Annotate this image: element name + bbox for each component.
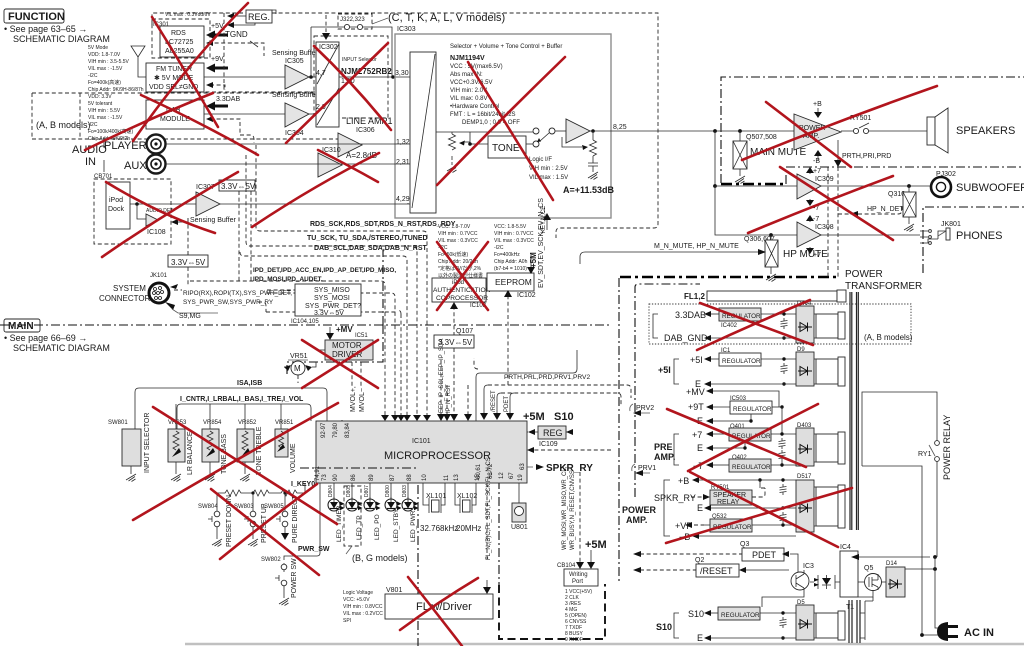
dashed arrow into micro right (530, 449, 611, 451)
svg-text:V801: V801 (386, 587, 402, 594)
svg-text:SYS_MISO: SYS_MISO (314, 287, 350, 294)
svg-text:M_N_MUTE, HP_N_MUTE: M_N_MUTE, HP_N_MUTE (654, 243, 739, 250)
svg-text:+7: +7 (692, 430, 702, 440)
rounded dashed from IC303 region down (474, 358, 478, 369)
X over pots (153, 407, 337, 524)
svg-text:TU_SCK, TU_SDA,/STEREO,/TUNED: TU_SCK, TU_SDA,/STEREO,/TUNED (307, 235, 428, 242)
svg-text:RDS: RDS (171, 30, 186, 37)
connector circle (149, 283, 169, 303)
(A,B models) dashed box (32, 93, 340, 139)
(A,B models) dotted box (649, 304, 911, 344)
svg-text:+7: +7 (813, 168, 821, 175)
svg-text:PLAYER: PLAYER (104, 140, 147, 152)
svg-text:IN: IN (85, 156, 96, 168)
X over TONE (437, 57, 565, 185)
svg-text:+5M: +5M (523, 411, 545, 423)
svg-text:VIL max : -1.5V: VIL max : -1.5V (88, 115, 123, 121)
svg-text:VIH min: 2.0V: VIH min: 2.0V (450, 88, 487, 94)
svg-text:-B: -B (813, 158, 820, 165)
selector trapezoid element (410, 52, 436, 213)
svg-text:Q2: Q2 (695, 557, 704, 564)
svg-text:SUBWOOFER: SUBWOOFER (956, 182, 1024, 194)
wire player to IC303 (166, 143, 410, 145)
svg-text:• See page 66–69 →: • See page 66–69 → (4, 333, 87, 343)
dashed arrow into EEPROM from below (507, 296, 509, 385)
svg-text:J322,323: J322,323 (340, 17, 365, 23)
iPod Dock box (106, 182, 130, 229)
svg-text:Q507,508: Q507,508 (746, 134, 777, 141)
LED D804 LED_TIMER (333, 483, 335, 499)
svg-text:Writing: Writing (569, 572, 588, 578)
bracket (653, 314, 658, 338)
X over DAB module (85, 93, 213, 150)
svg-text:IC308: IC308 (815, 224, 834, 231)
svg-text:LED_TP: LED_TP (356, 515, 363, 540)
svg-text:VIH min : 5.5V: VIH min : 5.5V (88, 108, 121, 114)
dash-dot enclosure around motor (287, 325, 383, 377)
main section dash-dot border left (0, 250, 612, 325)
dashed columns into micro (441, 360, 447, 415)
IC302 selector element (316, 42, 339, 127)
svg-text:PRTH,PRL,PRD,PRV1,PRV2: PRTH,PRL,PRD,PRV1,PRV2 (504, 374, 590, 381)
J322,323 connector (338, 14, 372, 29)
svg-text:TRANSFORMER: TRANSFORMER (845, 281, 922, 292)
X over RDS/FM tuner (133, 3, 248, 141)
arrow from S9,MG up to connector (165, 302, 175, 310)
svg-text:67: 67 (509, 472, 515, 479)
svg-text:SW802: SW802 (261, 557, 281, 563)
MAIN title box (4, 319, 110, 353)
svg-text:Sensing Buffer: Sensing Buffer (272, 50, 318, 57)
svg-text:+9V: +9V (211, 56, 224, 63)
caps D517 area (780, 484, 787, 495)
svg-text:LED_PWR: LED_PWR (410, 510, 417, 542)
X over motor driver (302, 340, 378, 388)
U801 (518, 483, 520, 503)
svg-text:A8255A0: A8255A0 (165, 48, 194, 55)
svg-text:5V tolerant: 5V tolerant (88, 101, 113, 107)
antenna (131, 46, 146, 77)
svg-text:VIL max : -1.5V: VIL max : -1.5V (88, 66, 123, 72)
svg-text:Logic I/F: Logic I/F (529, 157, 552, 163)
svg-text:Q107: Q107 (456, 328, 473, 335)
svg-text:AUX: AUX (124, 160, 147, 172)
svg-text:DAB_SCL,DAB_SDA,DAB_N_RST: DAB_SCL,DAB_SDA,DAB_N_RST (314, 245, 428, 252)
svg-text:TONE TREBLE: TONE TREBLE (256, 426, 263, 475)
svg-text:VIL max : 0.3Vdd/6V: VIL max : 0.3Vdd/6V (165, 12, 211, 18)
wire REG to left with arrow (234, 15, 246, 17)
IC303 box (395, 34, 611, 218)
svg-text:REGULATOR: REGULATOR (733, 406, 772, 413)
svg-text:SYS_PWR_DET?: SYS_PWR_DET? (305, 303, 361, 310)
IC301 RDS block (160, 26, 204, 57)
svg-text:VCC : 5V(max6.5V): VCC : 5V(max6.5V) (450, 64, 503, 70)
dash-dot border over microprocessor (300, 467, 418, 469)
bypass wire over TONE (470, 131, 533, 133)
svg-text:•Hardware Control: •Hardware Control (450, 104, 499, 110)
svg-text:Fo=400k(高速): Fo=400k(高速) (88, 79, 121, 86)
svg-text:VCC: 1.8-7.0V: VCC: 1.8-7.0V (438, 224, 471, 230)
svg-text:RELAY: RELAY (717, 499, 740, 506)
svg-text:Dock: Dock (108, 206, 124, 213)
svg-text:Fo=50k(低速): Fo=50k(低速) (438, 251, 468, 258)
opto coupler LED (818, 575, 835, 589)
AC IN plug (937, 622, 948, 641)
svg-text:HP_N_DET: HP_N_DET (867, 206, 904, 213)
svg-text:LED_PO: LED_PO (374, 514, 381, 540)
svg-text:Selector + Volume + Tone Contr: Selector + Volume + Tone Control + Buffe… (450, 44, 562, 50)
SPKR_RY output (527, 466, 533, 468)
svg-text:20MHz: 20MHz (456, 524, 481, 533)
svg-text:+9T: +9T (688, 402, 704, 412)
wire DAB to IC304 (204, 113, 285, 115)
svg-text:4,7: 4,7 (316, 70, 326, 77)
svg-text:IPD_DET,IPD_ACC_EN,IPD_AP_DET,: IPD_DET,IPD_ACC_EN,IPD_AP_DET,IPD_MISO, (253, 267, 396, 274)
svg-text:PDET: PDET (504, 396, 510, 412)
svg-text:E: E (697, 443, 703, 453)
wire down to subwoofer row (714, 131, 716, 186)
LED D807 LED_PO (369, 483, 371, 499)
svg-text:73: 73 (322, 474, 328, 481)
IC301 dashed box (152, 19, 210, 58)
svg-text:PWR_SW: PWR_SW (298, 546, 330, 553)
svg-text:iPod: iPod (109, 197, 123, 204)
micro section dash-dot vertical (417, 468, 419, 646)
svg-text:SYS_PWR_SW,SYS_PWR_RY: SYS_PWR_SW,SYS_PWR_RY (183, 299, 274, 306)
svg-text:POWER SW: POWER SW (291, 558, 298, 598)
LED D805 LED_TP dashed box (351, 483, 353, 499)
svg-text:E: E (697, 503, 703, 513)
bus arrows into micro (381, 415, 431, 421)
svg-text:IC102: IC102 (517, 292, 536, 299)
wire IC302 to IC303 (339, 76, 410, 78)
function bottom-right thick dash-dot border (620, 276, 838, 279)
svg-text:2,31: 2,31 (396, 159, 410, 166)
motor driver box (325, 340, 373, 360)
svg-text:I_CNTR,I_LRBAL,I_BAS,I_TRE,I_V: I_CNTR,I_LRBAL,I_BAS,I_TRE,I_VOL (180, 396, 304, 403)
svg-text:3.3DAB: 3.3DAB (675, 310, 706, 320)
svg-text:3.3V⇔5V: 3.3V⇔5V (221, 182, 256, 191)
KEY_N_CE arrow into IC303 bottom (546, 219, 548, 230)
IC309 amp (715, 185, 797, 187)
svg-text:D803: D803 (402, 485, 408, 497)
dashed vertical TGND line (223, 13, 225, 92)
svg-text:3.3V⇔5V: 3.3V⇔5V (314, 310, 344, 317)
svg-text:SW801: SW801 (108, 420, 128, 426)
svg-text:LED_STBY: LED_STBY (393, 508, 400, 542)
svg-text:S10: S10 (656, 622, 672, 632)
IC302 dashed box (314, 36, 388, 118)
output opamp (555, 130, 566, 132)
svg-text:RIPO(RX),ROPI(TX),SYS_PWR_DET,: RIPO(RX),ROPI(TX),SYS_PWR_DET, (183, 290, 292, 297)
svg-text:REG.: REG. (248, 12, 270, 22)
arrow into dashed box (171, 219, 178, 225)
phones dash-dot box (923, 207, 1024, 273)
svg-text:19: 19 (518, 474, 524, 481)
feedback resistor (590, 131, 597, 160)
svg-text:JK101: JK101 (150, 273, 168, 279)
svg-text:VDD: 1.8-7.0V: VDD: 1.8-7.0V (88, 52, 121, 58)
svg-text:E: E (697, 633, 703, 643)
wires around IC4 (858, 556, 930, 558)
dashed bus to power section (488, 385, 631, 398)
svg-text:4,29: 4,29 (396, 196, 410, 203)
svg-text:5V Mode: 5V Mode (88, 45, 108, 51)
svg-text:U801: U801 (511, 524, 528, 531)
wire tuner to IC305 (204, 76, 285, 78)
LED D803 LED_PWR (407, 483, 409, 499)
svg-text:VIL max : 1.5V: VIL max : 1.5V (529, 175, 568, 181)
5V Mode spec text (88, 45, 144, 93)
wire IC307 to IC303 (220, 203, 410, 204)
svg-text:PDET: PDET (752, 550, 777, 560)
svg-text:TONE: TONE (492, 143, 520, 154)
DAB MODULE block (146, 100, 204, 129)
svg-text:D14: D14 (886, 561, 898, 567)
dashed link motor to volume pot (298, 375, 342, 440)
svg-text:-I2C: -I2C (88, 122, 98, 128)
3.3V-5V box lower (168, 255, 208, 267)
dashed link IC307 to 3.3V box (187, 218, 189, 256)
wire IC305 to IC302 (309, 76, 316, 78)
svg-text:SW805: SW805 (264, 504, 284, 510)
svg-text:REG: REG (543, 428, 563, 438)
svg-text:PRTH,PRI,PRD: PRTH,PRI,PRD (842, 153, 891, 160)
svg-text:S10: S10 (688, 609, 704, 619)
svg-text:+5I: +5I (658, 365, 671, 375)
svg-text:92-97: 92-97 (321, 422, 327, 438)
svg-text:VOLUME: VOLUME (290, 443, 297, 473)
svg-text:IC51: IC51 (355, 333, 368, 339)
svg-text:88: 88 (407, 474, 413, 481)
EEPROM box (487, 273, 534, 291)
svg-text:IC101: IC101 (412, 438, 431, 445)
AC wires to plug (922, 557, 948, 635)
svg-text:(C, T, K, A, L, V models): (C, T, K, A, L, V models) (388, 12, 505, 24)
svg-text:VR852: VR852 (238, 420, 257, 426)
top dashed enclosure (C,T,K,A,L,V models) (152, 13, 658, 238)
authentication coprocessor box (432, 278, 486, 302)
logic voltage text (343, 590, 383, 624)
switch circles (533, 128, 539, 134)
power section inner dash-dot border (635, 284, 700, 497)
svg-text:EEP_IP_SCL,EEP_IP_SDA: EEP_IP_SCL,EEP_IP_SDA (439, 339, 445, 413)
svg-text:Q3: Q3 (740, 541, 749, 548)
svg-text:VR851: VR851 (275, 420, 294, 426)
svg-text:IC4: IC4 (840, 544, 851, 551)
svg-text:M: M (294, 364, 301, 373)
DAB spec text (88, 94, 133, 142)
svg-text:EEPROM: EEPROM (495, 277, 532, 287)
svg-text:SYSTEM: SYSTEM (113, 284, 146, 293)
svg-text:VCC: 1.8-5.5V: VCC: 1.8-5.5V (494, 224, 527, 230)
tone out wire (526, 143, 533, 145)
svg-text:MVOL+,: MVOL+, (350, 386, 357, 412)
svg-text:IC104,105: IC104,105 (291, 319, 319, 325)
svg-text:POWER: POWER (622, 505, 657, 515)
wire to phones (821, 234, 920, 236)
X over input selector IC302 (286, 43, 388, 143)
svg-text:Chip Addr: 9K/9H-86/87h: Chip Addr: 9K/9H-86/87h (88, 87, 144, 93)
svg-text:S9,MG: S9,MG (179, 313, 201, 320)
svg-text:VIH min : 3.5-5.5V: VIH min : 3.5-5.5V (88, 59, 130, 65)
svg-text:VIH min : 0.8VCC: VIH min : 0.8VCC (343, 604, 383, 610)
thick arrow +5V into RDS (206, 31, 228, 40)
svg-text:+MV: +MV (686, 387, 705, 397)
svg-text:+MV: +MV (336, 325, 353, 334)
svg-text:AC IN: AC IN (964, 627, 994, 639)
IC4 box (810, 581, 840, 583)
svg-text:A=+11.53dB: A=+11.53dB (563, 185, 615, 195)
power amp triangle (794, 114, 841, 150)
svg-text:Q5: Q5 (864, 565, 873, 572)
svg-text:3,30: 3,30 (395, 70, 409, 77)
LED D800 LED_STBY (390, 483, 392, 499)
X over IC310 / line amp (252, 153, 379, 227)
svg-text:DEMP1,0 ; 0,0 = OFF: DEMP1,0 ; 0,0 = OFF (462, 120, 520, 126)
wire dock to IC307 (130, 203, 196, 205)
primary winding loop (862, 392, 937, 558)
svg-text:NJM2752RB2: NJM2752RB2 (341, 67, 392, 76)
svg-text:T1: T1 (846, 604, 854, 611)
svg-text:SYS_MOSI: SYS_MOSI (314, 295, 350, 302)
wire aux to IC303 (166, 163, 410, 165)
TONE box (488, 136, 526, 158)
svg-text:3.3V⇔5V: 3.3V⇔5V (171, 258, 206, 267)
REG. box (246, 10, 272, 23)
svg-text:AMP.: AMP. (654, 452, 675, 462)
speaker symbol (927, 117, 935, 145)
svg-text:MVOL−: MVOL− (359, 388, 366, 412)
3.3V-5V box top (219, 180, 255, 191)
svg-text:MICROPROCESSOR: MICROPROCESSOR (384, 450, 491, 462)
svg-text:Sensing Buffer: Sensing Buffer (272, 92, 318, 99)
svg-text:VIL max : 0.2VCC: VIL max : 0.2VCC (343, 611, 383, 617)
svg-text:63: 63 (520, 463, 526, 470)
svg-text:79,80: 79,80 (333, 422, 339, 438)
svg-text:REGULATOR: REGULATOR (721, 612, 760, 619)
svg-text:15: 15 (475, 474, 481, 481)
svg-text:87: 87 (390, 474, 396, 481)
svg-text:SPI: SPI (343, 618, 351, 624)
svg-text:+B: +B (813, 101, 822, 108)
wire to subwoofer (821, 185, 931, 187)
dashed down to writing port (579, 472, 581, 563)
bottom border gray line (185, 643, 1024, 646)
IC302 outer solid box (311, 27, 392, 77)
svg-text:IC109: IC109 (539, 441, 558, 448)
svg-text:IC108: IC108 (147, 229, 166, 236)
svg-text:RDS_SCK,RDS_SDT,RDS_N_RST,RDS_: RDS_SCK,RDS_SDT,RDS_N_RST,RDS_RDY (310, 221, 456, 228)
svg-text:SPKR_RY: SPKR_RY (654, 493, 696, 503)
svg-text:90: 90 (333, 474, 339, 481)
svg-text:FL1,2: FL1,2 (684, 292, 705, 301)
svg-text:IC305: IC305 (285, 58, 304, 65)
svg-text:32.768kHz: 32.768kHz (420, 524, 458, 533)
arrow into connector right (170, 284, 178, 289)
svg-text:-7: -7 (813, 216, 819, 223)
svg-text:83,84: 83,84 (345, 422, 351, 438)
svg-text:VCC: +5.0V: VCC: +5.0V (343, 597, 370, 603)
svg-text:/RESET: /RESET (700, 566, 733, 576)
X over power amp supply (666, 488, 852, 543)
svg-text:HP MUTE: HP MUTE (783, 249, 828, 260)
svg-text:(B, G models): (B, G models) (352, 553, 408, 563)
svg-text:VCC+0.3V/6.5V: VCC+0.3V/6.5V (450, 80, 493, 86)
X over headphone amps (780, 167, 893, 240)
FL area dash-dot vertical (498, 480, 500, 585)
svg-text:LR BALANCE: LR BALANCE (187, 431, 194, 475)
X over FL driver (408, 577, 462, 646)
X over preset switches (211, 489, 319, 575)
svg-text:ISA,ISB: ISA,ISB (237, 380, 262, 387)
svg-text:TGND: TGND (225, 30, 248, 39)
svg-text:REGULATOR: REGULATOR (732, 464, 771, 471)
svg-text:11: 11 (444, 474, 450, 481)
svg-text:3.3DAB: 3.3DAB (216, 96, 240, 103)
JK101 dashed columns (267, 293, 395, 416)
svg-text:Chip Addr: A0h: Chip Addr: A0h (494, 259, 528, 265)
svg-text:9 RXDF: 9 RXDF (565, 637, 583, 643)
svg-text:POWER RELAY: POWER RELAY (942, 415, 952, 480)
svg-text:• See page 63–65 →: • See page 63–65 → (4, 24, 87, 34)
svg-text:SCHEMATIC DIAGRAM: SCHEMATIC DIAGRAM (13, 34, 110, 44)
X over power amp block (742, 86, 937, 160)
svg-text:MOTOR: MOTOR (332, 341, 362, 350)
svg-text:D517: D517 (797, 474, 812, 480)
dashed arrow into DAB bottom (210, 119, 254, 143)
svg-text:+5M: +5M (529, 252, 538, 268)
subwoofer section dash-dot top (786, 167, 1024, 184)
svg-text:INPUT SELECTOR: INPUT SELECTOR (144, 413, 151, 473)
volume pot inside IC303 (436, 132, 470, 160)
spec text I2C 50k (438, 224, 483, 286)
dash-dot power amp enclosure (721, 77, 1024, 183)
svg-text:PHONES: PHONES (956, 230, 1002, 242)
IC108 buffer (146, 214, 158, 226)
svg-text:D807: D807 (364, 485, 370, 497)
svg-text:CONNECTOR: CONNECTOR (99, 294, 151, 303)
svg-text:12: 12 (499, 472, 505, 479)
X over iPod dock (106, 182, 215, 233)
FUNCTION title box (4, 9, 110, 44)
spec text I2C 400k (494, 224, 534, 279)
svg-text:AUTHENTICATION: AUTHENTICATION (433, 287, 491, 294)
svg-text:+5M: +5M (585, 539, 607, 551)
svg-text:VIL max : 0.3VCC: VIL max : 0.3VCC (494, 238, 534, 244)
opamp output wire (590, 130, 611, 132)
svg-text:Logic Voltage: Logic Voltage (343, 590, 373, 596)
svg-text:Sensing Buffer: Sensing Buffer (190, 217, 236, 224)
svg-text:VIH min : 0.7VCC: VIH min : 0.7VCC (494, 231, 534, 237)
svg-text:+5I: +5I (690, 355, 703, 365)
wire IC304 to IC302 (309, 113, 316, 115)
arrow into IC302 from top (325, 15, 327, 32)
dashed line under tuner (146, 91, 340, 93)
svg-text:IC402: IC402 (721, 323, 738, 329)
svg-text:VIL max : 0.3VCC: VIL max : 0.3VCC (438, 238, 478, 244)
svg-text:D805: D805 (346, 485, 352, 497)
svg-text:REGULATOR: REGULATOR (722, 358, 761, 365)
svg-text:Fo=400kHz: Fo=400kHz (494, 252, 520, 258)
svg-text:86: 86 (351, 474, 357, 481)
svg-text:Port: Port (572, 579, 583, 585)
svg-text:-I2C: -I2C (494, 245, 504, 251)
svg-text:IPD_MOSI,IPD_AUDET,: IPD_MOSI,IPD_AUDET, (253, 276, 323, 283)
FM TUNER block (146, 63, 204, 92)
dashed arrow into RDS lower (208, 43, 264, 56)
svg-text:POWER: POWER (845, 269, 883, 280)
